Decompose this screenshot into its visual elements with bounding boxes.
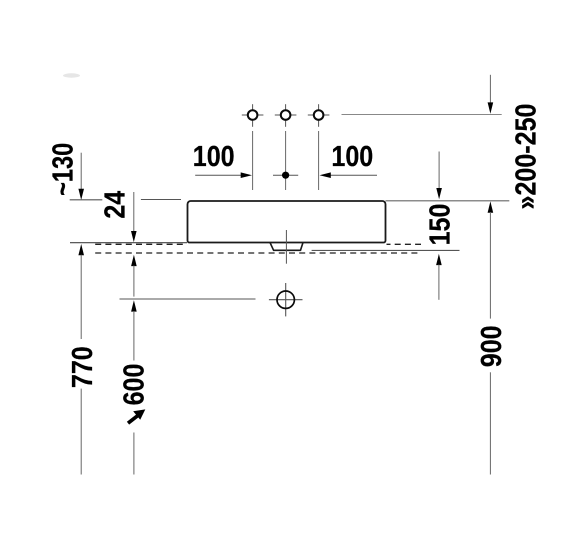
svg-text:600: 600 [118, 364, 150, 406]
svg-text:24: 24 [99, 191, 131, 219]
tick at basin top left [70, 199, 103, 201]
label 24 [99, 191, 131, 219]
label 200-250 [510, 104, 542, 210]
770 line bottom [80, 389, 82, 475]
trap connection line [120, 298, 256, 300]
label 600 [118, 364, 150, 406]
dashed line B (counter underside) [95, 252, 420, 254]
svg-text:100: 100 [331, 140, 373, 172]
basin top extension line [386, 200, 510, 202]
dashed line A (counter surface) [95, 243, 421, 245]
600 line bottom [133, 433, 135, 475]
extension line below right circle [318, 131, 320, 190]
svg-text:»200-250: »200-250 [510, 104, 542, 210]
tick for 24 [141, 199, 181, 201]
up arrow of dimension 200-250 / 900 line top [488, 201, 494, 318]
svg-text:100: 100 [193, 140, 235, 172]
dimension 24 arrow [131, 192, 137, 242]
dimension 100 left [193, 140, 252, 178]
svg-text:150: 150 [424, 204, 456, 246]
drain center line [285, 230, 287, 264]
extension line below left circle [252, 131, 254, 190]
tap hole circle middle [275, 104, 297, 127]
150 level line [312, 249, 460, 251]
down arrow of dimension 200-250 [488, 75, 494, 114]
dimension 600 lower arrow [131, 300, 137, 360]
basin outline [188, 201, 386, 243]
svg-text:900: 900 [476, 325, 508, 367]
faint smudge artifact top-left [63, 73, 80, 77]
dimension ~130 arrow [78, 153, 84, 200]
drain notch [270, 242, 304, 250]
dimension 100 right [320, 140, 378, 178]
label 900 [476, 325, 508, 367]
svg-text:~130: ~130 [46, 143, 79, 196]
extension line below middle circle [285, 131, 287, 190]
top reference line to faucet level [342, 114, 502, 116]
tap hole circle right [308, 104, 330, 127]
svg-text:770: 770 [67, 346, 99, 388]
dimension 150 bottom arrow [436, 254, 442, 300]
900 line bottom [489, 372, 491, 474]
label 150 [424, 204, 456, 246]
center reference dot [273, 172, 298, 179]
label 770 [67, 346, 99, 388]
label ~130 [46, 143, 79, 196]
recommended height NE arrow [128, 409, 145, 423]
dimension 150 top arrow [436, 152, 442, 200]
tap hole circle left [242, 104, 264, 127]
dimension 600 upper arrow [131, 255, 137, 297]
trap connection circle [269, 283, 303, 316]
dimension 770 top arrow [78, 244, 84, 339]
countertop solid line left [70, 242, 187, 244]
